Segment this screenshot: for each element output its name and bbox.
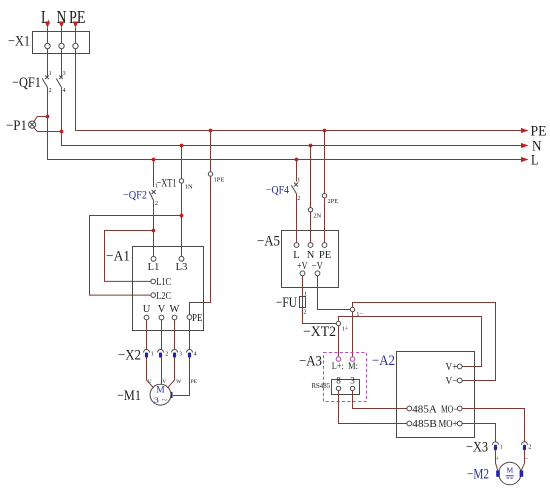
svg-text:2: 2 <box>304 310 307 316</box>
svg-text:−X3: −X3 <box>466 440 488 456</box>
svg-text:M:: M: <box>348 361 358 371</box>
svg-text:3: 3 <box>179 352 182 358</box>
svg-text:−: − <box>524 455 528 462</box>
svg-text:U: U <box>148 379 152 385</box>
svg-text:1: 1 <box>155 184 158 190</box>
svg-text:W: W <box>176 379 182 385</box>
svg-text:N: N <box>307 250 315 261</box>
svg-text:2PE: 2PE <box>327 198 338 205</box>
pin A5 N <box>308 243 313 248</box>
svg-text:1+: 1+ <box>342 326 349 333</box>
wire XT2 1+ to A2 V+ <box>339 317 482 367</box>
connector X2 pin 3 <box>172 350 183 358</box>
pin A5 PE <box>322 243 327 248</box>
svg-text:−M2: −M2 <box>467 467 489 483</box>
svg-text:2: 2 <box>155 201 158 207</box>
wire 2PE to A5 PE <box>324 198 326 243</box>
wire X2:4 to motor M1 (PE) <box>173 357 190 395</box>
lamp P1 <box>6 118 36 134</box>
wire X3:2 to motor M2 - <box>521 450 524 470</box>
svg-text:V+: V+ <box>446 362 458 373</box>
wire A1 U to X2:1 <box>146 319 148 349</box>
svg-text:L1: L1 <box>148 262 160 273</box>
wire A1 PE to X2:4 <box>189 320 191 350</box>
svg-text:+: + <box>495 455 499 462</box>
wire RS485 8 to A2 485B <box>339 391 407 424</box>
wire QF1 pole1 to L bus corner <box>48 88 528 160</box>
wire X1-N down to QF1 pole2 <box>61 49 63 77</box>
junction N bus tap 2 <box>309 144 313 148</box>
svg-text:8: 8 <box>336 376 341 386</box>
svg-text:1: 1 <box>151 352 154 358</box>
wire lamp P1 to N line <box>34 127 62 131</box>
svg-text:L1C: L1C <box>156 277 171 288</box>
svg-text:RS485: RS485 <box>312 382 331 390</box>
svg-text:−QF1: −QF1 <box>12 75 41 91</box>
wire XT2 1+ to A3 L+ <box>338 326 340 357</box>
motor M2 <box>467 462 523 484</box>
svg-text:−X2: −X2 <box>118 348 141 364</box>
svg-text:PE: PE <box>192 313 203 324</box>
wire L arrow to X1 terminal <box>47 28 49 44</box>
svg-text:−A5: −A5 <box>257 234 280 250</box>
breaker QF4 <box>266 178 300 203</box>
wire L bus to QF2 <box>153 160 155 188</box>
connector X2 pin 4 <box>187 350 197 358</box>
connector X3 pin 2 <box>522 442 532 451</box>
fuse FU <box>276 291 307 315</box>
wire XT2 1- to A2 V- <box>353 303 496 381</box>
svg-text:−XT1: −XT1 <box>157 178 177 190</box>
junction L1 control tap <box>152 229 156 233</box>
terminal XT1:1N <box>181 146 183 179</box>
wire lamp P1 to L line <box>34 117 48 122</box>
net label L bus with arrow <box>521 157 529 162</box>
svg-text:PE: PE <box>531 124 547 140</box>
wire 2N to A5 N <box>310 212 312 243</box>
wire control loop L2C (from 1N line) <box>90 216 182 296</box>
wire A1 W to X2:3 <box>174 319 176 349</box>
junction PE bus tap 2 <box>323 129 327 133</box>
svg-text:W: W <box>170 304 180 315</box>
svg-text:−QF4: −QF4 <box>266 185 289 197</box>
RS485 port box <box>312 380 360 395</box>
wire A1 V to X2:2 <box>161 319 163 349</box>
terminal XT1:1PE <box>210 131 212 172</box>
wire XT2 1- to A3 M <box>352 312 354 357</box>
svg-text:2: 2 <box>49 88 52 94</box>
svg-text:PE: PE <box>69 7 86 27</box>
pin A1 U <box>144 315 149 320</box>
pin A1 L1 <box>151 256 156 261</box>
svg-text:−A2: −A2 <box>372 353 395 369</box>
connector X3 pin 1 <box>493 442 503 451</box>
wire control loop L1C (from L1 line) <box>105 231 154 282</box>
svg-text:−A3: −A3 <box>299 354 322 370</box>
junction N bus tap 1 <box>180 144 184 148</box>
pin A1 L2C <box>151 293 156 298</box>
pin A3 L+ <box>336 357 341 362</box>
wire 1N to A1 L3 <box>181 183 183 256</box>
svg-text:MO−: MO− <box>441 405 458 416</box>
wire RS485 3 to A2 485A <box>353 391 407 409</box>
terminal XT2:1+ <box>336 321 340 325</box>
arrow incoming N <box>59 22 65 28</box>
junction lamp-L <box>46 115 50 119</box>
pin A1 PE <box>187 315 192 320</box>
terminal block X1 <box>8 32 90 54</box>
encoder A3 (dashed enclosure) <box>299 353 367 402</box>
svg-text:V−: V− <box>446 376 458 387</box>
wire X2:3 to motor M1 (W) <box>168 357 175 387</box>
svg-text:L: L <box>531 153 539 169</box>
svg-text:PE: PE <box>319 250 331 261</box>
svg-text:485A: 485A <box>412 405 437 416</box>
breaker QF2 <box>123 184 158 208</box>
wire A2 MO+ to X3:1 <box>462 424 495 442</box>
junction L bus tap 1 <box>152 158 156 162</box>
svg-text:V: V <box>162 379 166 385</box>
svg-text:U: U <box>143 304 151 315</box>
svg-text:3 ~: 3 ~ <box>154 396 168 405</box>
svg-text:V: V <box>158 304 166 315</box>
breaker QF1 pole 2 <box>56 71 65 94</box>
svg-text:L3: L3 <box>176 262 188 273</box>
wire L bus to QF4 <box>296 160 298 182</box>
wire QF2 to A1 L1 <box>153 200 155 256</box>
svg-text:3: 3 <box>350 376 355 386</box>
svg-text:4: 4 <box>63 88 66 94</box>
wire A5 -V to XT2 1- <box>318 276 351 310</box>
terminal XT2:1- <box>350 307 354 311</box>
breaker QF1 pole 1 <box>42 71 51 94</box>
wire PE arrow to X1 terminal <box>75 28 77 44</box>
wire X3:1 to motor M2 + <box>496 450 498 470</box>
pin A1 V <box>159 315 164 320</box>
wire X1-L down to QF1 pole1 <box>47 49 49 77</box>
svg-text:−X1: −X1 <box>8 34 30 50</box>
pin A1 L1C <box>151 279 156 284</box>
terminal 2N <box>310 146 312 208</box>
svg-text:1PE: 1PE <box>214 177 225 184</box>
pin A1 W <box>172 315 177 320</box>
motor M1 <box>117 384 172 405</box>
svg-text:L: L <box>293 250 299 261</box>
wire A2 MO- to X3:2 <box>462 409 524 442</box>
wire fuse FU to XT2 1+ <box>303 308 337 324</box>
wire X2:2 to motor M1 (V) <box>161 357 163 384</box>
terminal 2PE <box>324 131 326 194</box>
junction PE bus tap 1 <box>209 129 213 133</box>
wire X2:1 to motor M1 (U) <box>147 357 154 387</box>
svg-text:−FU: −FU <box>276 295 297 311</box>
svg-text:−A1: −A1 <box>106 249 130 265</box>
wire A5 +V to fuse FU <box>302 276 304 297</box>
net label PE bus with arrow <box>521 128 529 133</box>
drive A1 <box>106 247 204 331</box>
svg-text:−XT2: −XT2 <box>303 324 336 340</box>
svg-text:4: 4 <box>194 352 197 358</box>
svg-text:M: M <box>506 466 513 475</box>
wire QF1 pole2 to N bus corner <box>62 88 528 146</box>
power supply A5 <box>257 231 339 288</box>
svg-text:M: M <box>156 386 165 396</box>
svg-text:1N: 1N <box>185 184 193 191</box>
junction lamp-N <box>60 130 64 134</box>
svg-text:PE: PE <box>191 379 198 385</box>
pin A3 M <box>350 357 355 362</box>
pin A5 L <box>294 243 299 248</box>
pin A1 L3 <box>179 256 184 261</box>
svg-text:1: 1 <box>500 445 503 451</box>
arrow incoming L <box>45 22 51 28</box>
svg-text:485B: 485B <box>412 419 437 430</box>
connector X2 pin 2 <box>158 350 169 358</box>
svg-text:3: 3 <box>63 71 66 77</box>
controller A2 <box>372 352 475 438</box>
svg-text:−QF2: −QF2 <box>123 190 147 202</box>
wire 1PE to A1 PE notch <box>204 176 211 302</box>
svg-text:L+:: L+: <box>332 361 344 371</box>
junction L bus tap 2 <box>295 158 299 162</box>
wire QF4 to A5 L <box>296 194 298 243</box>
svg-text:2: 2 <box>297 196 300 202</box>
svg-text:L2C: L2C <box>156 291 171 302</box>
svg-text:MO+: MO+ <box>439 419 458 430</box>
svg-text:−P1: −P1 <box>6 118 27 134</box>
svg-text:2: 2 <box>165 352 168 358</box>
wire N arrow to X1 terminal <box>61 28 63 44</box>
pin A2 485B <box>407 421 412 426</box>
connector X2 pin 1 <box>144 350 154 358</box>
wire X1-PE down to PE bus corner <box>76 49 528 131</box>
junction L3 control tap <box>180 214 184 218</box>
pin A2 485A <box>407 406 412 411</box>
svg-text:1: 1 <box>49 71 52 77</box>
svg-text:2N: 2N <box>313 213 321 220</box>
svg-text:2: 2 <box>528 445 531 451</box>
svg-text:−M1: −M1 <box>117 388 141 404</box>
arrow incoming PE <box>73 22 79 28</box>
net label N bus with arrow <box>521 143 529 148</box>
